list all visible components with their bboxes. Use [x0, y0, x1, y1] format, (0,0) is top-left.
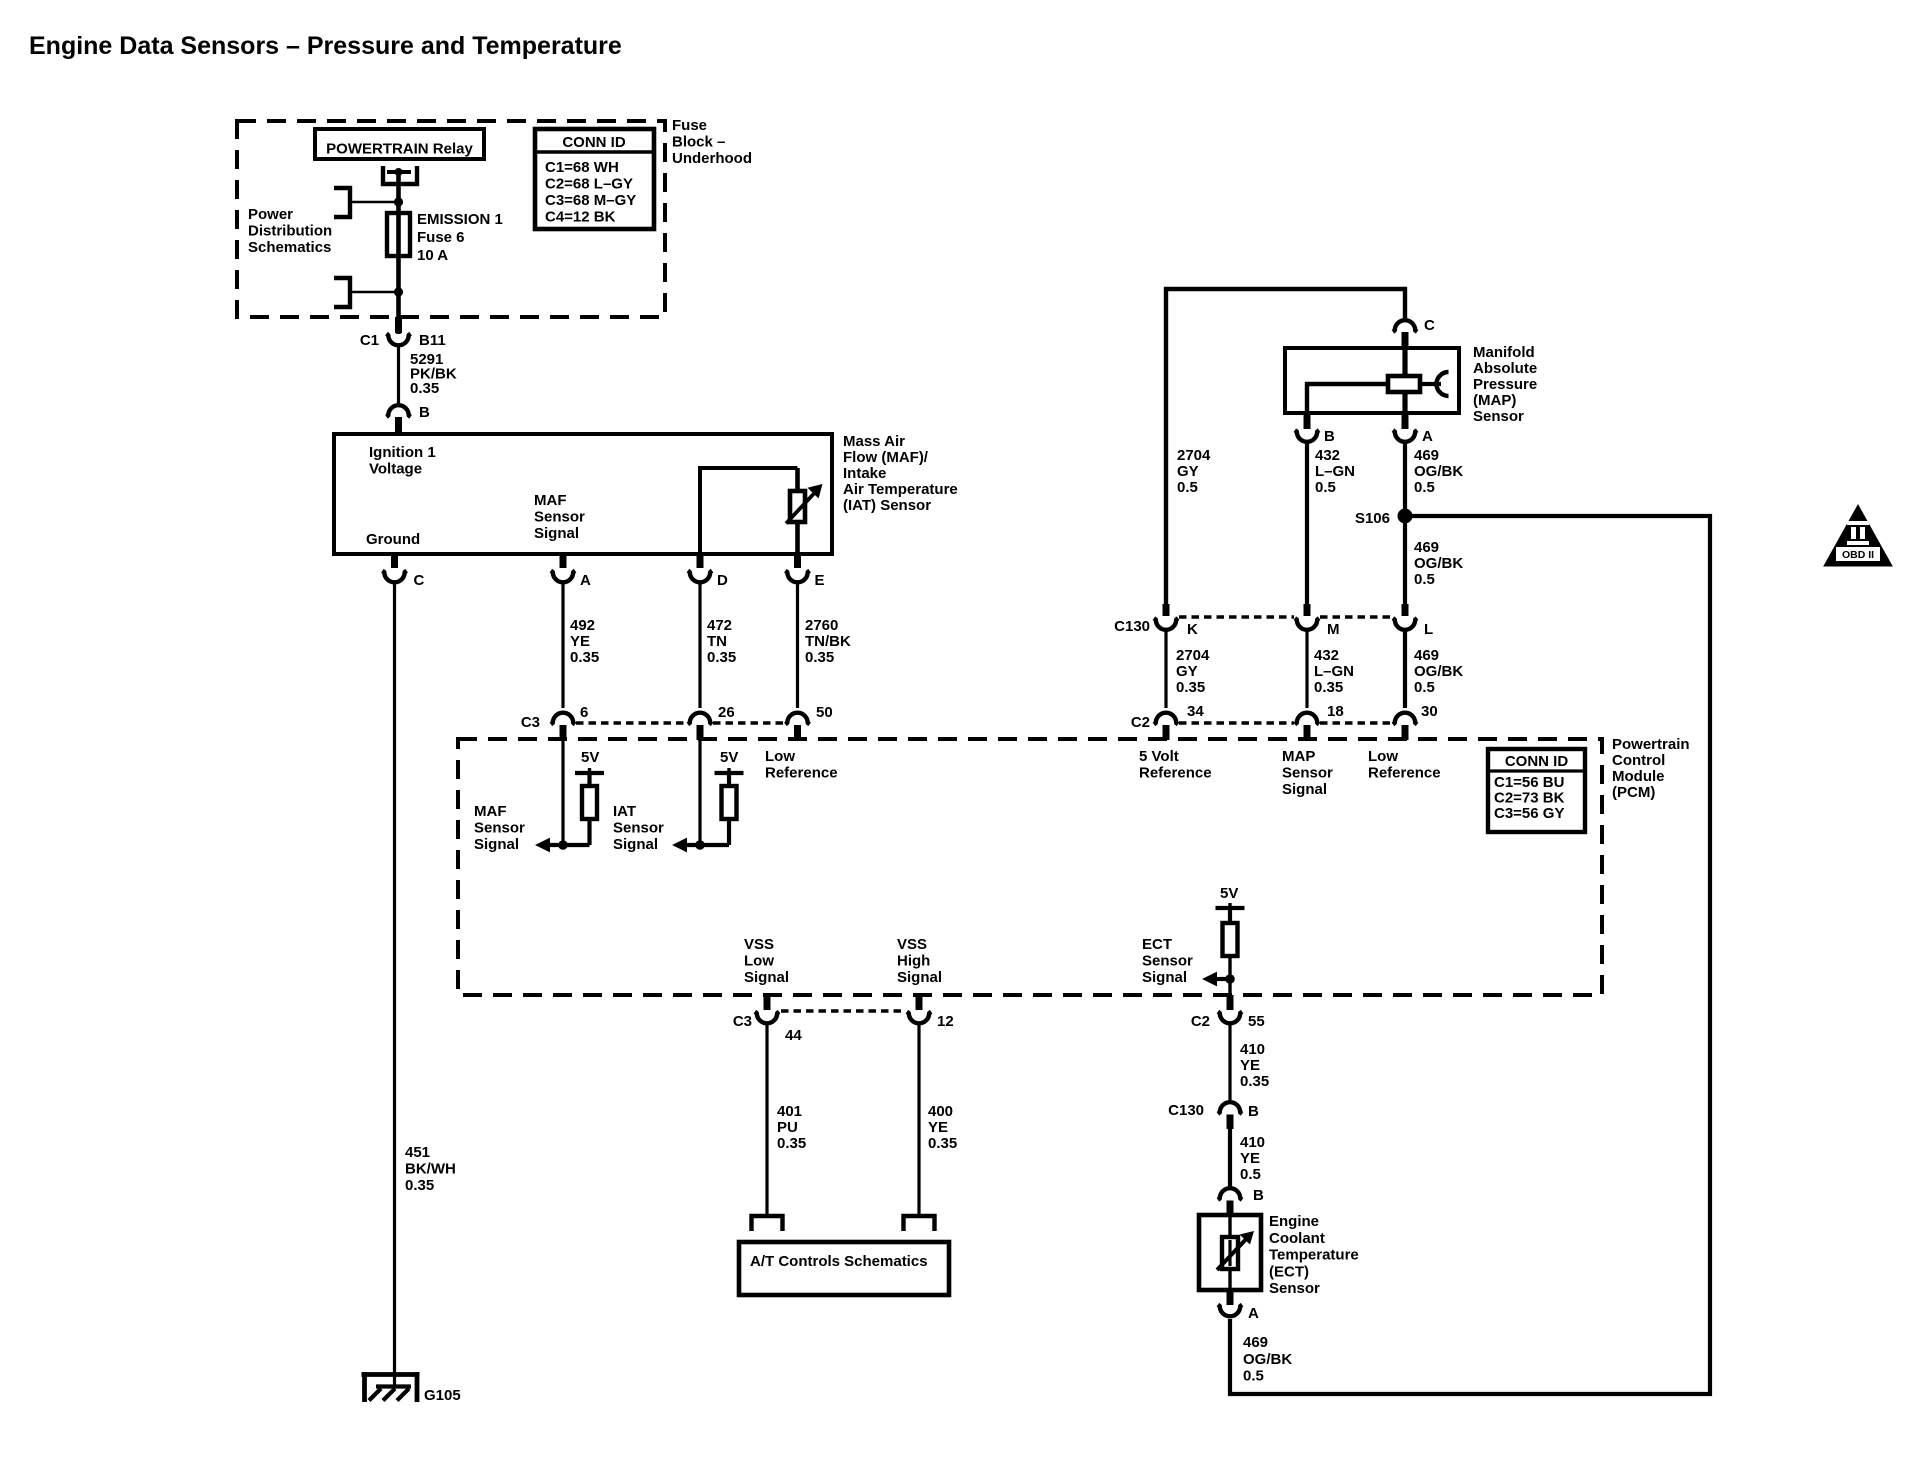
svg-text:Manifold: Manifold [1473, 344, 1535, 361]
svg-text:VSS: VSS [744, 936, 774, 953]
wire 469 OG/BK 0.5 (C130 to PCM) [1403, 630, 1407, 708]
svg-text:410: 410 [1240, 1041, 1265, 1058]
svg-text:Sensor: Sensor [1269, 1280, 1320, 1297]
wire 451 BK/WH 0.35 (ground to G105) [393, 582, 396, 1387]
ground G105 [362, 1372, 420, 1377]
svg-text:C3: C3 [521, 714, 540, 731]
svg-text:Signal: Signal [897, 969, 942, 986]
svg-text:M: M [1327, 621, 1340, 638]
svg-text:0.5: 0.5 [1414, 571, 1435, 588]
svg-text:Reference: Reference [1368, 765, 1441, 782]
svg-text:0.5: 0.5 [1177, 479, 1198, 496]
svg-text:B11: B11 [419, 332, 446, 349]
svg-text:MAF: MAF [534, 492, 567, 509]
dashed pin link C3 44-12 [781, 1009, 906, 1013]
svg-text:A: A [1248, 1305, 1259, 1322]
svg-text:432: 432 [1315, 447, 1340, 464]
arrow: IAT Sensor Signal [672, 838, 687, 853]
svg-text:Sensor: Sensor [1142, 953, 1193, 970]
svg-text:Coolant: Coolant [1269, 1230, 1325, 1247]
svg-text:469: 469 [1414, 647, 1439, 664]
connector C3 pin 50 (PCM) [785, 713, 809, 725]
svg-text:C1=56 BU: C1=56 BU [1494, 774, 1564, 791]
svg-text:Ground: Ground [366, 531, 420, 548]
svg-text:OG/BK: OG/BK [1243, 1351, 1292, 1368]
connector C1 pin B11 [395, 317, 402, 333]
svg-text:50: 50 [816, 704, 833, 721]
OBD II symbol [1824, 505, 1892, 566]
svg-text:Pressure: Pressure [1473, 376, 1537, 393]
svg-text:Mass Air: Mass Air [843, 433, 905, 450]
svg-text:CONN ID: CONN ID [562, 134, 626, 151]
svg-text:34: 34 [1187, 703, 1204, 720]
svg-text:400: 400 [928, 1103, 953, 1120]
svg-text:Block –: Block – [672, 134, 725, 151]
svg-text:5 Volt: 5 Volt [1139, 748, 1179, 765]
svg-text:30: 30 [1421, 703, 1438, 720]
node: junction fuse output [394, 287, 403, 296]
svg-text:TN/BK: TN/BK [805, 633, 851, 650]
svg-text:Ignition 1: Ignition 1 [369, 444, 436, 461]
svg-text:10 A: 10 A [417, 247, 448, 264]
svg-text:GY: GY [1176, 663, 1198, 680]
CONN ID table (fuse block) [535, 129, 654, 229]
svg-text:Low: Low [744, 953, 774, 970]
5V supply (ECT) [1216, 906, 1245, 910]
svg-text:C2: C2 [1131, 714, 1150, 731]
power distribution stub (upper) [334, 186, 352, 190]
svg-text:469: 469 [1243, 1334, 1268, 1351]
svg-text:C2: C2 [1191, 1013, 1210, 1030]
wire: IAT signal inside PCM [698, 740, 701, 845]
dashed pin link C2 34-18-30 [1179, 721, 1294, 725]
wire 5291 PK/BK 0.35 [397, 345, 400, 406]
svg-text:Low: Low [1368, 748, 1398, 765]
MAP sensor box [1285, 348, 1459, 413]
svg-text:Fuse 6: Fuse 6 [417, 229, 465, 246]
wire 469 OG/BK 0.5 (MAP A to S106) [1403, 441, 1407, 610]
svg-text:C2=68 L–GY: C2=68 L–GY [545, 176, 633, 193]
connector C (MAP sensor) [1393, 320, 1417, 332]
wire: IAT element loop inside sensor box [700, 468, 798, 554]
power distribution stub (lower) [334, 276, 352, 280]
connector C3 pin 12 (PCM bottom) [916, 995, 923, 1010]
5V supply (IAT) [715, 771, 744, 775]
svg-text:TN: TN [707, 633, 727, 650]
Powertrain Control Module dashed box [458, 739, 1602, 995]
svg-text:Fuse: Fuse [672, 117, 707, 134]
connector pin C (MAF/IAT sensor) [391, 554, 398, 568]
relay K1 contact symbol [381, 166, 385, 186]
svg-text:0.5: 0.5 [1414, 479, 1435, 496]
connector C130 pin B (ECT branch) [1218, 1102, 1242, 1114]
terminal (VSS low, A/T controls) [752, 1216, 783, 1231]
svg-text:472: 472 [707, 617, 732, 634]
svg-text:OG/BK: OG/BK [1414, 663, 1463, 680]
svg-text:401: 401 [777, 1103, 802, 1120]
svg-text:Control: Control [1612, 752, 1665, 769]
svg-text:B: B [1324, 428, 1335, 445]
svg-text:BK/WH: BK/WH [405, 1161, 456, 1178]
svg-text:A: A [580, 572, 591, 589]
svg-text:C3=68 M–GY: C3=68 M–GY [545, 192, 636, 209]
svg-text:C3: C3 [733, 1013, 752, 1030]
connector C130 pin L [1402, 604, 1409, 616]
MAF/IAT sensor box [334, 434, 832, 554]
svg-text:Schematics: Schematics [248, 239, 331, 256]
connector C2 pin 18 (PCM) [1295, 713, 1319, 725]
wire 410 YE 0.5 [1228, 1127, 1232, 1187]
fuse block underhood dashed box [237, 121, 665, 317]
svg-text:EMISSION 1: EMISSION 1 [417, 211, 503, 228]
svg-text:YE: YE [1240, 1057, 1260, 1074]
svg-text:L–GN: L–GN [1315, 463, 1355, 480]
wire: relay to fuse to C1 [396, 172, 401, 334]
svg-text:451: 451 [405, 1144, 430, 1161]
connector A (MAP sensor) [1402, 413, 1409, 429]
connector pin D (MAF/IAT sensor) [697, 554, 704, 568]
svg-text:2704: 2704 [1176, 647, 1210, 664]
svg-text:Signal: Signal [744, 969, 789, 986]
svg-text:Distribution: Distribution [248, 223, 332, 240]
node: ECT signal junction [1225, 974, 1235, 984]
svg-text:0.35: 0.35 [1240, 1073, 1269, 1090]
svg-text:Sensor: Sensor [474, 820, 525, 837]
svg-text:432: 432 [1314, 647, 1339, 664]
arrow: ECT Sensor Signal [1202, 972, 1217, 987]
connector C2 pin 30 (PCM) [1393, 713, 1417, 725]
svg-text:S106: S106 [1355, 510, 1390, 527]
svg-text:Module: Module [1612, 768, 1665, 785]
node: MAF signal junction [558, 840, 568, 850]
wire 2704 GY 0.35 [1164, 630, 1167, 708]
svg-text:MAF: MAF [474, 803, 507, 820]
svg-text:410: 410 [1240, 1134, 1265, 1151]
resistor: ECT pull-up [1223, 923, 1238, 956]
svg-text:492: 492 [570, 617, 595, 634]
svg-text:Signal: Signal [1142, 969, 1187, 986]
IAT thermistor element [790, 491, 805, 522]
connector C130 pin K [1163, 604, 1170, 616]
svg-text:L: L [1424, 621, 1433, 638]
svg-text:A: A [1422, 428, 1433, 445]
connector A (ECT sensor) [1227, 1290, 1234, 1305]
svg-text:0.5: 0.5 [1315, 479, 1336, 496]
connector C3 pin 44 (PCM bottom) [764, 995, 771, 1010]
svg-text:B: B [419, 404, 430, 421]
svg-text:0.35: 0.35 [928, 1135, 957, 1152]
svg-text:C130: C130 [1114, 618, 1150, 635]
connector C2 pin 55 (PCM bottom) [1227, 995, 1234, 1010]
svg-text:0.35: 0.35 [410, 380, 439, 397]
resistor: IAT pull-up [722, 786, 737, 819]
svg-text:Intake: Intake [843, 465, 886, 482]
svg-text:C1: C1 [360, 332, 379, 349]
svg-text:C4=12 BK: C4=12 BK [545, 209, 616, 226]
svg-text:PU: PU [777, 1119, 798, 1136]
svg-text:12: 12 [937, 1013, 954, 1030]
svg-text:ECT: ECT [1142, 936, 1172, 953]
svg-text:Sensor: Sensor [613, 820, 664, 837]
MAP vacuum port symbol [1437, 372, 1449, 396]
node: IAT signal junction [695, 840, 705, 850]
svg-text:0.35: 0.35 [805, 649, 834, 666]
connector B (ECT sensor) [1218, 1188, 1242, 1200]
svg-text:YE: YE [570, 633, 590, 650]
svg-text:High: High [897, 953, 930, 970]
svg-text:0.5: 0.5 [1414, 679, 1435, 696]
wire: MAF signal inside PCM [561, 740, 564, 845]
svg-text:5V: 5V [720, 749, 738, 766]
svg-text:0.5: 0.5 [1240, 1166, 1261, 1183]
svg-text:B: B [1253, 1187, 1264, 1204]
svg-text:55: 55 [1248, 1013, 1265, 1030]
connector pin A (MAF/IAT sensor) [560, 554, 567, 568]
svg-text:POWERTRAIN Relay: POWERTRAIN Relay [326, 141, 473, 158]
svg-text:Signal: Signal [1282, 781, 1327, 798]
svg-text:0.5: 0.5 [1243, 1368, 1264, 1385]
POWERTRAIN Relay label box [315, 129, 484, 159]
svg-text:469: 469 [1414, 447, 1439, 464]
A/T Controls Schematics box [739, 1242, 949, 1295]
ECT thermistor element [1222, 1237, 1238, 1269]
svg-text:VSS: VSS [897, 936, 927, 953]
svg-text:CONN ID: CONN ID [1505, 753, 1569, 770]
svg-text:469: 469 [1414, 539, 1439, 556]
CONN ID table (PCM) [1488, 749, 1585, 832]
wire 401 PU 0.35 [765, 1022, 768, 1216]
svg-text:MAP: MAP [1282, 748, 1315, 765]
svg-text:5V: 5V [1220, 885, 1238, 902]
svg-text:Sensor: Sensor [534, 509, 585, 526]
svg-text:Engine Data Sensors – Pressure: Engine Data Sensors – Pressure and Tempe… [29, 32, 622, 60]
svg-text:Engine: Engine [1269, 1213, 1319, 1230]
connector C2 pin 34 (PCM) [1154, 713, 1178, 725]
svg-text:E: E [815, 572, 825, 589]
svg-text:Reference: Reference [1139, 765, 1212, 782]
svg-text:Signal: Signal [474, 836, 519, 853]
5V supply (MAF) [575, 771, 604, 775]
connector B (MAP sensor) [1304, 413, 1311, 429]
svg-text:0.35: 0.35 [777, 1135, 806, 1152]
svg-text:Voltage: Voltage [369, 461, 422, 478]
svg-text:A/T Controls Schematics: A/T Controls Schematics [750, 1253, 928, 1270]
resistor: MAF pull-up [582, 786, 597, 819]
Engine Coolant Temperature sensor box [1199, 1215, 1261, 1290]
svg-text:Flow (MAF)/: Flow (MAF)/ [843, 449, 929, 466]
svg-text:Signal: Signal [534, 525, 579, 542]
dashed pin link C130 K-M-L [1179, 615, 1294, 619]
svg-text:Signal: Signal [613, 836, 658, 853]
wire 2760 TN/BK 0.35 [796, 584, 799, 708]
svg-text:B: B [1248, 1103, 1259, 1120]
svg-text:44: 44 [785, 1027, 802, 1044]
svg-text:C2=73 BK: C2=73 BK [1494, 790, 1565, 807]
connector pin E (MAF/IAT sensor) [794, 554, 801, 568]
svg-text:0.35: 0.35 [1314, 679, 1343, 696]
svg-text:L–GN: L–GN [1314, 663, 1354, 680]
svg-text:IAT: IAT [613, 803, 636, 820]
svg-text:Air Temperature: Air Temperature [843, 481, 958, 498]
terminal (VSS high, A/T controls) [904, 1216, 935, 1231]
svg-text:OBD II: OBD II [1842, 549, 1874, 561]
svg-text:Underhood: Underhood [672, 150, 752, 167]
wire 432 L-GN 0.5 [1305, 441, 1309, 610]
svg-text:G105: G105 [424, 1387, 461, 1404]
svg-text:C: C [414, 572, 425, 589]
svg-text:K: K [1187, 621, 1198, 638]
svg-text:6: 6 [580, 704, 588, 721]
svg-text:C1=68 WH: C1=68 WH [545, 159, 619, 176]
wire 410 YE 0.35 [1228, 1022, 1231, 1101]
svg-text:0.35: 0.35 [1176, 679, 1205, 696]
svg-text:0.35: 0.35 [707, 649, 736, 666]
connector C3 pin 6 (PCM) [551, 713, 575, 725]
svg-text:OG/BK: OG/BK [1414, 463, 1463, 480]
arrow: MAF Sensor Signal [535, 838, 550, 853]
svg-text:(ECT): (ECT) [1269, 1263, 1309, 1280]
svg-text:2760: 2760 [805, 617, 838, 634]
svg-text:0.35: 0.35 [405, 1177, 434, 1194]
svg-text:C3=56 GY: C3=56 GY [1494, 805, 1564, 822]
svg-text:Reference: Reference [765, 765, 838, 782]
svg-text:(MAP): (MAP) [1473, 392, 1516, 409]
wire 400 YE 0.35 [917, 1022, 920, 1216]
svg-text:Power: Power [248, 206, 293, 223]
wire: MAP element internal [1307, 384, 1388, 413]
wire 492 YE 0.35 [561, 584, 564, 708]
svg-text:C: C [1424, 317, 1435, 334]
svg-text:YE: YE [1240, 1150, 1260, 1167]
node: junction relay/power feed [394, 197, 403, 206]
svg-text:Sensor: Sensor [1282, 765, 1333, 782]
wire 469 OG/BK 0.5 (S106 branch to ECT) [1230, 516, 1710, 1394]
connector B (MAF/IAT sensor) [386, 405, 410, 417]
svg-text:Sensor: Sensor [1473, 408, 1524, 425]
dashed pin link C3 6-26-50 [576, 721, 687, 725]
svg-text:C130: C130 [1168, 1102, 1204, 1119]
fuse EMISSION 1 Fuse 6 10 A [387, 213, 410, 256]
splice S106 [1398, 509, 1413, 524]
svg-text:26: 26 [718, 704, 735, 721]
svg-text:GY: GY [1177, 463, 1199, 480]
wire 432 L-GN 0.35 [1305, 630, 1308, 708]
svg-text:OG/BK: OG/BK [1414, 555, 1463, 572]
wire: ECT signal inside PCM [1228, 956, 1231, 995]
svg-text:5V: 5V [581, 749, 599, 766]
svg-text:Low: Low [765, 748, 795, 765]
connector C130 pin M [1304, 604, 1311, 616]
svg-text:Powertrain: Powertrain [1612, 736, 1690, 753]
svg-text:2704: 2704 [1177, 447, 1211, 464]
svg-text:(PCM): (PCM) [1612, 784, 1655, 801]
svg-text:YE: YE [928, 1119, 948, 1136]
svg-text:0.35: 0.35 [570, 649, 599, 666]
MAP transducer element [1388, 376, 1420, 392]
svg-text:18: 18 [1327, 703, 1344, 720]
wire 472 TN 0.35 [698, 584, 701, 708]
svg-text:(IAT) Sensor: (IAT) Sensor [843, 497, 931, 514]
wire: 5V reference feed to MAP sensor [1166, 289, 1405, 610]
svg-text:Absolute: Absolute [1473, 360, 1537, 377]
svg-text:Temperature: Temperature [1269, 1247, 1359, 1264]
svg-text:D: D [717, 572, 728, 589]
connector C3 pin 26 (PCM) [688, 713, 712, 725]
